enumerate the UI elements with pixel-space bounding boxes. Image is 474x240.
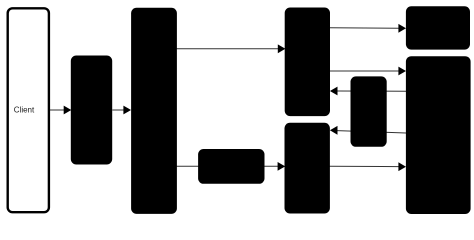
- wire node B9 to node B6 (passes under label B7): [330, 126, 406, 135]
- wire node B2 to node B3: [112, 106, 131, 115]
- label B4 on wire B3-B6: [198, 149, 264, 184]
- node B3: [131, 8, 177, 214]
- label B7 on wire B9-B5: [351, 76, 387, 146]
- wire node B5 to node B8: [330, 24, 406, 33]
- wire node B3 to node B5: [176, 44, 285, 53]
- wire node B9 to node B5 (passes under label B7): [330, 87, 406, 96]
- node B8: [406, 6, 470, 49]
- svg-text:Client: Client: [14, 105, 35, 114]
- wire node B6 to node B9: [329, 162, 406, 171]
- node B6: [285, 123, 330, 214]
- wire Client to node B2: [50, 106, 72, 115]
- node B5: [285, 8, 330, 117]
- wire node B5 to node B9: [330, 67, 406, 76]
- wire node B3 to node B6 (passes under label B4): [176, 162, 285, 171]
- node B9: [406, 56, 471, 214]
- node Client (box): [8, 8, 49, 212]
- node B2: [71, 56, 112, 165]
